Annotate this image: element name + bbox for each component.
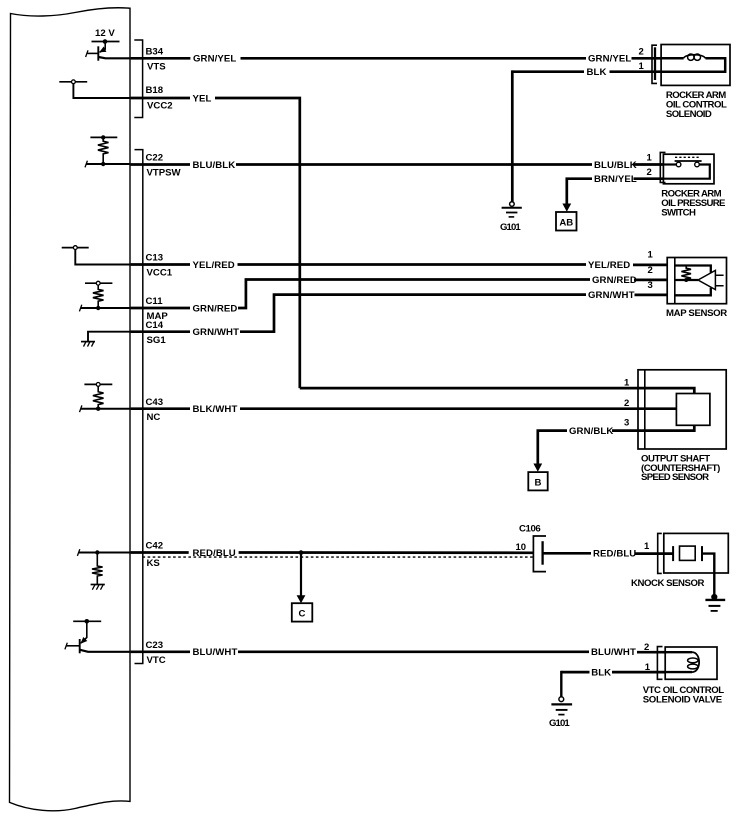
open node circle (C13) <box>73 246 77 250</box>
rocker arm oil control solenoid connector bracket <box>652 45 657 83</box>
pressure switch contact circle 2 <box>695 162 700 167</box>
open node circle (C43) <box>96 383 100 387</box>
svg-text:SOLENOID: SOLENOID <box>666 109 712 120</box>
svg-text:C23: C23 <box>146 640 164 651</box>
solenoid coil loop 1 <box>688 54 694 60</box>
svg-text:VTS: VTS <box>147 62 166 73</box>
svg-text:3: 3 <box>624 418 629 429</box>
C43 internal rail stub <box>84 383 112 385</box>
wire GRN/BLK to connector B <box>538 431 567 464</box>
connector bracket C (pins C22..C23) <box>135 150 143 664</box>
svg-text:SPEED SENSOR: SPEED SENSOR <box>641 472 709 483</box>
earth ground (knock sensor) <box>711 594 717 600</box>
VTC solenoid coil loop 2 <box>688 664 698 669</box>
shield dashed line (KS) <box>143 556 534 558</box>
ground G101 (lower) <box>559 697 564 702</box>
svg-text:GRN/YEL: GRN/YEL <box>588 54 631 65</box>
wire GRN/YEL left segment <box>131 57 191 60</box>
svg-text:C106: C106 <box>519 524 540 535</box>
wire BRN/YEL from switch pin 2 <box>634 177 664 180</box>
rocker arm oil control solenoid box <box>661 45 730 86</box>
pressure switch contact circle 1 <box>676 162 681 167</box>
wire-end slash (C43) <box>80 405 82 412</box>
svg-text:GRN/WHT: GRN/WHT <box>193 327 240 338</box>
wire RED/BLU to knock sensor pin 1 <box>635 552 674 555</box>
resistor (VTPSW pull-up) <box>98 137 109 164</box>
svg-text:1: 1 <box>639 61 645 72</box>
wire C43 internal <box>81 408 131 410</box>
C11 internal rail stub <box>85 282 112 284</box>
svg-text:1: 1 <box>648 249 654 260</box>
chassis ground (SG1) <box>81 341 95 343</box>
svg-text:YEL: YEL <box>193 93 212 104</box>
VTC oil control solenoid valve box <box>665 647 717 679</box>
pressure switch blade <box>675 160 702 162</box>
junction dot (C22 rail) <box>101 135 105 139</box>
VTC solenoid coil arc <box>692 652 699 672</box>
arrowhead to AB <box>562 204 571 212</box>
wire YEL/RED main <box>238 263 587 266</box>
svg-text:G101: G101 <box>500 222 521 233</box>
svg-text:2: 2 <box>639 47 644 58</box>
ground G101 (upper) <box>510 202 515 207</box>
wire GRN/WHT left segment <box>131 330 190 333</box>
svg-text:YEL/RED: YEL/RED <box>588 260 630 271</box>
speed sensor connector strip <box>644 370 646 449</box>
wire C11 internal <box>81 307 131 309</box>
knock sensor element square <box>680 546 696 560</box>
svg-text:C14: C14 <box>146 320 164 331</box>
wire YEL main (to speed sensor pin 1) <box>215 98 300 388</box>
wire BLU/BLK to switch pin 1 <box>634 163 664 166</box>
svg-text:2: 2 <box>644 642 649 653</box>
wire BLU/BLK main <box>236 163 592 166</box>
svg-text:AB: AB <box>559 218 573 229</box>
wire BLU/BLK left segment <box>131 163 190 166</box>
svg-text:C11: C11 <box>146 296 164 307</box>
wire RED/BLU left segment <box>131 551 189 554</box>
MAP internal amplifier triangle <box>698 270 715 289</box>
wire-end slash (Q2 base) <box>65 643 67 650</box>
VTC solenoid connector bracket <box>657 647 662 680</box>
svg-text:1: 1 <box>645 662 651 673</box>
open node circle (B18) <box>72 80 76 84</box>
svg-text:GRN/BLK: GRN/BLK <box>569 426 613 437</box>
resistor (NC pull-up) <box>93 386 104 408</box>
VTC solenoid wire bottom <box>665 671 692 673</box>
solenoid coil wire (top) <box>661 57 684 60</box>
wire YEL left segment <box>131 97 190 100</box>
wire-end slash (C11) <box>79 305 81 312</box>
rocker arm oil pressure switch connector bracket <box>660 152 665 182</box>
junction dot (MAP wiper) <box>684 278 688 282</box>
wire RED/BLU after C106 <box>543 552 591 555</box>
svg-text:BLK/WHT: BLK/WHT <box>193 404 238 415</box>
wire-end slash (C42) <box>77 549 79 556</box>
solenoid coil bump <box>684 55 706 59</box>
svg-text:BLK: BLK <box>587 67 607 78</box>
svg-text:NC: NC <box>147 412 161 423</box>
svg-text:KNOCK SENSOR: KNOCK SENSOR <box>631 578 704 589</box>
junction dot (C23 rail) <box>85 619 90 624</box>
speed sensor box <box>638 370 726 449</box>
junction dot (C22 pin) <box>101 162 105 166</box>
MAP internal top wire <box>675 266 711 273</box>
svg-text:C42: C42 <box>146 541 164 552</box>
resistor (KS) <box>92 553 103 585</box>
wire-end slash (Q1 base) <box>86 50 88 57</box>
svg-text:GRN/WHT: GRN/WHT <box>588 290 635 301</box>
svg-text:B34: B34 <box>146 47 164 58</box>
wire GRN/WHT main (up to MAP pin 3 row) <box>240 295 586 332</box>
pressure switch actuation dashes <box>675 156 699 158</box>
knock sensor box <box>664 533 729 573</box>
wire BLU/WHT left segment <box>131 650 190 653</box>
wire C14 internal to chassis ground <box>88 332 131 342</box>
wire GRN/RED to MAP pin 2 <box>634 279 668 282</box>
svg-text:BLU/WHT: BLU/WHT <box>591 647 636 658</box>
svg-text:VCC1: VCC1 <box>147 268 173 279</box>
svg-text:SWITCH: SWITCH <box>661 208 696 219</box>
speed sensor pickup square <box>676 394 710 426</box>
svg-text:RED/BLU: RED/BLU <box>593 549 636 560</box>
connector bracket B (pins B34,B18) <box>134 40 142 118</box>
svg-text:2: 2 <box>647 167 652 178</box>
wire BLK vertical drop to ground <box>511 70 514 201</box>
svg-text:MAP SENSOR: MAP SENSOR <box>666 308 727 319</box>
svg-text:SOLENOID VALVE: SOLENOID VALVE <box>643 695 723 706</box>
junction dot (C42 pin) <box>95 550 99 554</box>
arrowhead to B <box>533 464 542 472</box>
transistor Q2 (VTC driver, PNP) <box>67 621 131 653</box>
svg-text:KS: KS <box>147 558 161 569</box>
connector AB box <box>556 212 577 231</box>
wire GRN/RED main (up to MAP pin 2 row) <box>238 280 590 309</box>
svg-text:B: B <box>535 478 542 489</box>
wire BLK (solenoid pin 1) <box>512 70 584 73</box>
wire GRN/BLK (speed sensor pin 3) <box>612 425 694 430</box>
open node circle (C11) <box>96 281 100 285</box>
connector C106 bar <box>541 541 543 565</box>
MAP output stubs <box>715 275 723 286</box>
ECM module box (torn top/bottom edges) <box>10 8 131 811</box>
svg-text:GRN/RED: GRN/RED <box>592 275 637 286</box>
resistor (MAP pull-up) <box>93 285 104 308</box>
wire-end slash (C22) <box>85 161 87 168</box>
svg-text:GRN/RED: GRN/RED <box>193 303 238 314</box>
MAP sensor connector strip <box>674 258 676 304</box>
chassis ground (KS) <box>91 584 105 586</box>
arrow to connector C <box>300 553 302 596</box>
wire C42 internal <box>79 552 131 554</box>
wire RED/BLU main to C106 <box>239 551 534 554</box>
svg-text:BLK: BLK <box>591 667 611 678</box>
knock sensor right plate <box>701 546 703 561</box>
connector C box <box>292 603 313 621</box>
wire YEL horizontal to speed sensor pin 1 <box>300 388 695 393</box>
svg-text:BLU/WHT: BLU/WHT <box>193 647 238 658</box>
C13 internal stub <box>62 247 89 249</box>
MAP internal bottom wire <box>675 288 711 296</box>
svg-text:1: 1 <box>647 153 653 164</box>
svg-text:VTPSW: VTPSW <box>147 167 182 178</box>
12V rail <box>92 41 120 43</box>
C22 internal rail stub <box>90 136 117 138</box>
wire GRN/RED left segment <box>131 307 190 310</box>
svg-text:VCC2: VCC2 <box>147 101 173 112</box>
wire BLK drop to ground G101 <box>560 671 562 697</box>
svg-text:1: 1 <box>624 378 630 389</box>
svg-text:2: 2 <box>648 265 653 276</box>
svg-text:BRN/YEL: BRN/YEL <box>594 174 637 185</box>
svg-text:C: C <box>299 609 306 620</box>
node VCC2 internal stub <box>59 81 87 83</box>
wire C13 internal <box>75 250 130 265</box>
svg-text:BLU/BLK: BLU/BLK <box>193 160 236 171</box>
wire BRN/YEL to connector AB <box>567 179 592 204</box>
junction dot (C11 pin) <box>96 306 100 310</box>
wire BLK/WHT main (speed sensor pin 2) <box>240 407 676 410</box>
wire GRN/WHT to MAP pin 3 <box>635 294 669 297</box>
transistor Q1 (VTS driver, PNP) <box>88 42 131 61</box>
junction dot 12V <box>103 39 108 44</box>
pressure switch wire pin1 <box>663 163 676 165</box>
connector C106 bracket <box>533 536 546 572</box>
svg-text:10: 10 <box>516 542 527 553</box>
wire GRN/YEL to solenoid pin 2 <box>632 57 662 60</box>
knock sensor connector bracket <box>658 533 662 573</box>
wire BLK (VTC pin 1) <box>561 671 589 674</box>
solenoid coil loop 2 <box>694 54 700 60</box>
solenoid coil wire (return) <box>661 58 725 71</box>
svg-text:C43: C43 <box>146 397 164 408</box>
wire BLK to VTC pin 1 <box>612 671 665 674</box>
svg-text:B18: B18 <box>146 85 164 96</box>
svg-text:C13: C13 <box>146 253 164 264</box>
wire BLK/WHT left segment <box>131 407 190 410</box>
knock sensor wire to ground <box>702 554 714 596</box>
rocker arm oil pressure switch box <box>663 154 714 184</box>
svg-text:1: 1 <box>644 541 650 552</box>
wire YEL/RED to MAP pin 1 <box>633 264 668 267</box>
junction dot (C43 pin) <box>96 407 100 411</box>
svg-text:C22: C22 <box>146 152 164 163</box>
wire BLU/WHT main <box>238 650 589 653</box>
wire BLK to solenoid pin 1 <box>610 70 662 73</box>
svg-text:12 V: 12 V <box>95 28 115 39</box>
svg-text:GRN/YEL: GRN/YEL <box>193 54 236 65</box>
svg-text:VTC: VTC <box>147 655 166 666</box>
wire B18 internal <box>73 84 130 98</box>
wire C22 internal <box>86 163 130 165</box>
C23 internal rail stub <box>73 620 101 622</box>
pressure switch wire return <box>663 165 709 179</box>
svg-text:SG1: SG1 <box>147 335 167 346</box>
svg-text:2: 2 <box>624 398 629 409</box>
VTC solenoid wire top <box>665 651 692 653</box>
svg-text:YEL/RED: YEL/RED <box>193 260 235 271</box>
MAP internal pin2 wire <box>675 279 698 281</box>
connector B box <box>528 472 547 490</box>
MAP sensor box <box>667 258 726 304</box>
wire GRN/YEL main <box>241 57 587 60</box>
svg-text:G101: G101 <box>549 718 570 729</box>
VTC solenoid coil loop 1 <box>688 658 698 663</box>
knock sensor left plate <box>672 546 674 561</box>
wire BLU/WHT to VTC pin 2 <box>637 651 665 654</box>
junction dot (C arrow) <box>299 550 304 555</box>
svg-text:BLU/BLK: BLU/BLK <box>594 160 637 171</box>
svg-text:3: 3 <box>648 280 653 291</box>
MAP internal resistor <box>681 266 691 281</box>
wire YEL/RED left segment <box>131 263 190 266</box>
rocker arm oil control solenoid connector bar <box>654 47 656 80</box>
